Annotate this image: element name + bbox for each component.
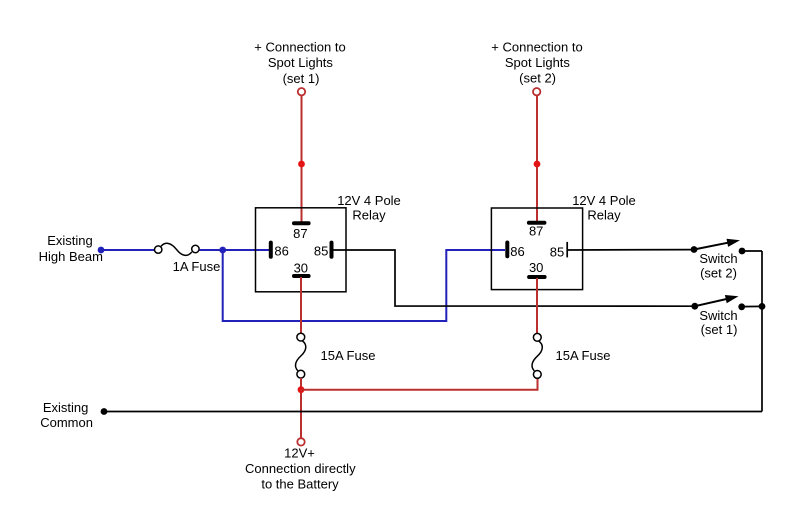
svg-text:30: 30 [294,260,308,275]
junction dot: blue node under 1A fuse [219,247,226,254]
fuse F3 15A: top circle [533,333,541,341]
relay U2 pin 86 bar [505,243,509,257]
label: 12V 4 Pole Relay (relay 2) [572,193,636,223]
wire: black relay1 pin85 right, down, across to switch set 1 [333,250,693,306]
wire: red relay2 pin30 down to 15A fuse [536,278,538,334]
terminal: 12V+ battery connector [297,438,304,445]
svg-text:87: 87 [529,224,543,239]
node: Existing High Beam label [39,233,103,264]
terminal dot: existing high beam [98,247,105,254]
svg-text:Spot Lights: Spot Lights [505,55,571,70]
svg-text:(set 1): (set 1) [701,322,738,337]
wire: blue high-beam to 1A fuse [101,249,155,251]
relay U1 pin 30 bar [294,274,309,278]
svg-text:87: 87 [293,226,307,241]
fuse F2 15A: top circle [297,333,305,341]
node: 12V+ Connection directly to the Battery label [245,446,356,492]
svg-text:Common: Common [40,415,93,430]
relay U2 pin 30 bar [529,275,545,279]
fuse F3 15A: bottom circle [533,371,541,379]
svg-text:(set 1): (set 1) [283,71,320,86]
terminal: spot lights set 1 connector [298,88,305,95]
svg-text:15A Fuse: 15A Fuse [321,348,376,363]
wire: blue fuse to relay1 pin 86 [200,249,271,251]
relay U2 pin 85 bar (thin) [566,242,568,258]
wire: right vertical bus from SW2 down to common [761,251,763,412]
wire: blue from junction down, across, up to relay2 pin 86 [223,250,505,321]
switch SW1 arrowhead [725,295,739,303]
wire: red from set-1 terminal down to relay1 pin 87 [301,96,303,222]
wire: red relay1 pin30 down to 15A fuse [300,277,302,333]
label: 12V 4 Pole Relay (relay 1) [337,193,401,223]
switch SW2 blade [694,243,728,250]
switch SW1 blade [695,299,726,306]
relay U1 pin 85 bar [330,243,334,257]
fuse F1 1A: right circle [192,245,199,252]
svg-text:+ Connection to: + Connection to [491,40,582,55]
node: + Connection to Spot Lights (set 2) label [491,40,582,86]
node: + Connection to Spot Lights (set 1) label [254,40,345,86]
svg-text:86: 86 [510,244,524,259]
svg-text:86: 86 [274,243,288,258]
svg-text:85: 85 [550,245,564,260]
svg-text:15A Fuse: 15A Fuse [556,348,611,363]
junction dot: right bus at SW1 [759,303,766,310]
wire: SW1 right contact to right bus [742,305,762,307]
wire: black relay2 pin85 to switch set 2 [567,249,693,251]
wire: black existing common bus [104,411,762,413]
terminal: spot lights set 2 connector [533,88,540,95]
node: Existing Common label [40,400,93,430]
relay U2 pin 87 bar [529,221,545,225]
relay U1 pin 87 bar [294,221,309,225]
svg-text:Relay: Relay [352,208,386,223]
svg-text:(set 2): (set 2) [700,266,737,281]
fuse F1 1A: left circle [155,246,162,253]
svg-text:12V 4 Pole: 12V 4 Pole [572,193,636,208]
label: Switch (set 2) [699,251,737,280]
svg-text:Existing: Existing [43,400,89,415]
wire: red fuse2 bottom to battery junction [300,378,302,438]
relay U2 body [491,208,582,290]
svg-text:85: 85 [314,243,328,258]
switch SW2 arrowhead [727,239,741,247]
svg-text:Existing: Existing [47,233,93,248]
wire: SW2 right contact to right bus [742,250,762,252]
fuse F2 15A: bottom circle [297,370,305,378]
svg-text:Switch: Switch [699,308,737,323]
svg-text:30: 30 [529,260,543,275]
junction dot on red wire 1 [298,161,305,168]
label: Switch (set 1) [699,308,737,337]
switch SW1 (set 1): left contact dot [691,303,698,310]
junction dot: battery red node [298,386,305,393]
switch SW2 (set 2): left contact dot [691,246,698,253]
fuse F3 15A: squiggle element [532,341,542,371]
relay U1 pin 86 bar [269,243,273,257]
svg-text:1A Fuse: 1A Fuse [173,259,221,274]
relay U1 body [256,208,347,292]
svg-text:Switch: Switch [699,251,737,266]
svg-text:+ Connection to: + Connection to [254,40,345,55]
terminal dot: existing common [101,408,108,415]
svg-text:to the Battery: to the Battery [261,476,339,491]
switch SW2 right contact dot [739,248,746,255]
svg-text:High Beam: High Beam [39,249,103,264]
svg-text:Relay: Relay [587,208,621,223]
junction dot on red wire 2 [534,161,541,168]
svg-text:12V 4 Pole: 12V 4 Pole [337,193,401,208]
svg-text:Connection directly: Connection directly [245,461,356,476]
fuse F1 1A: squiggle element [161,243,192,255]
switch SW1 right contact dot [738,303,745,310]
svg-text:(set 2): (set 2) [519,70,556,85]
svg-text:Spot Lights: Spot Lights [268,55,334,70]
wire: red horizontal battery bus to fuse3 [301,378,538,390]
fuse F2 15A: squiggle element [296,341,306,371]
svg-text:12V+: 12V+ [284,446,315,461]
wire: red from set-2 terminal down to relay2 pin 87 [536,96,538,222]
